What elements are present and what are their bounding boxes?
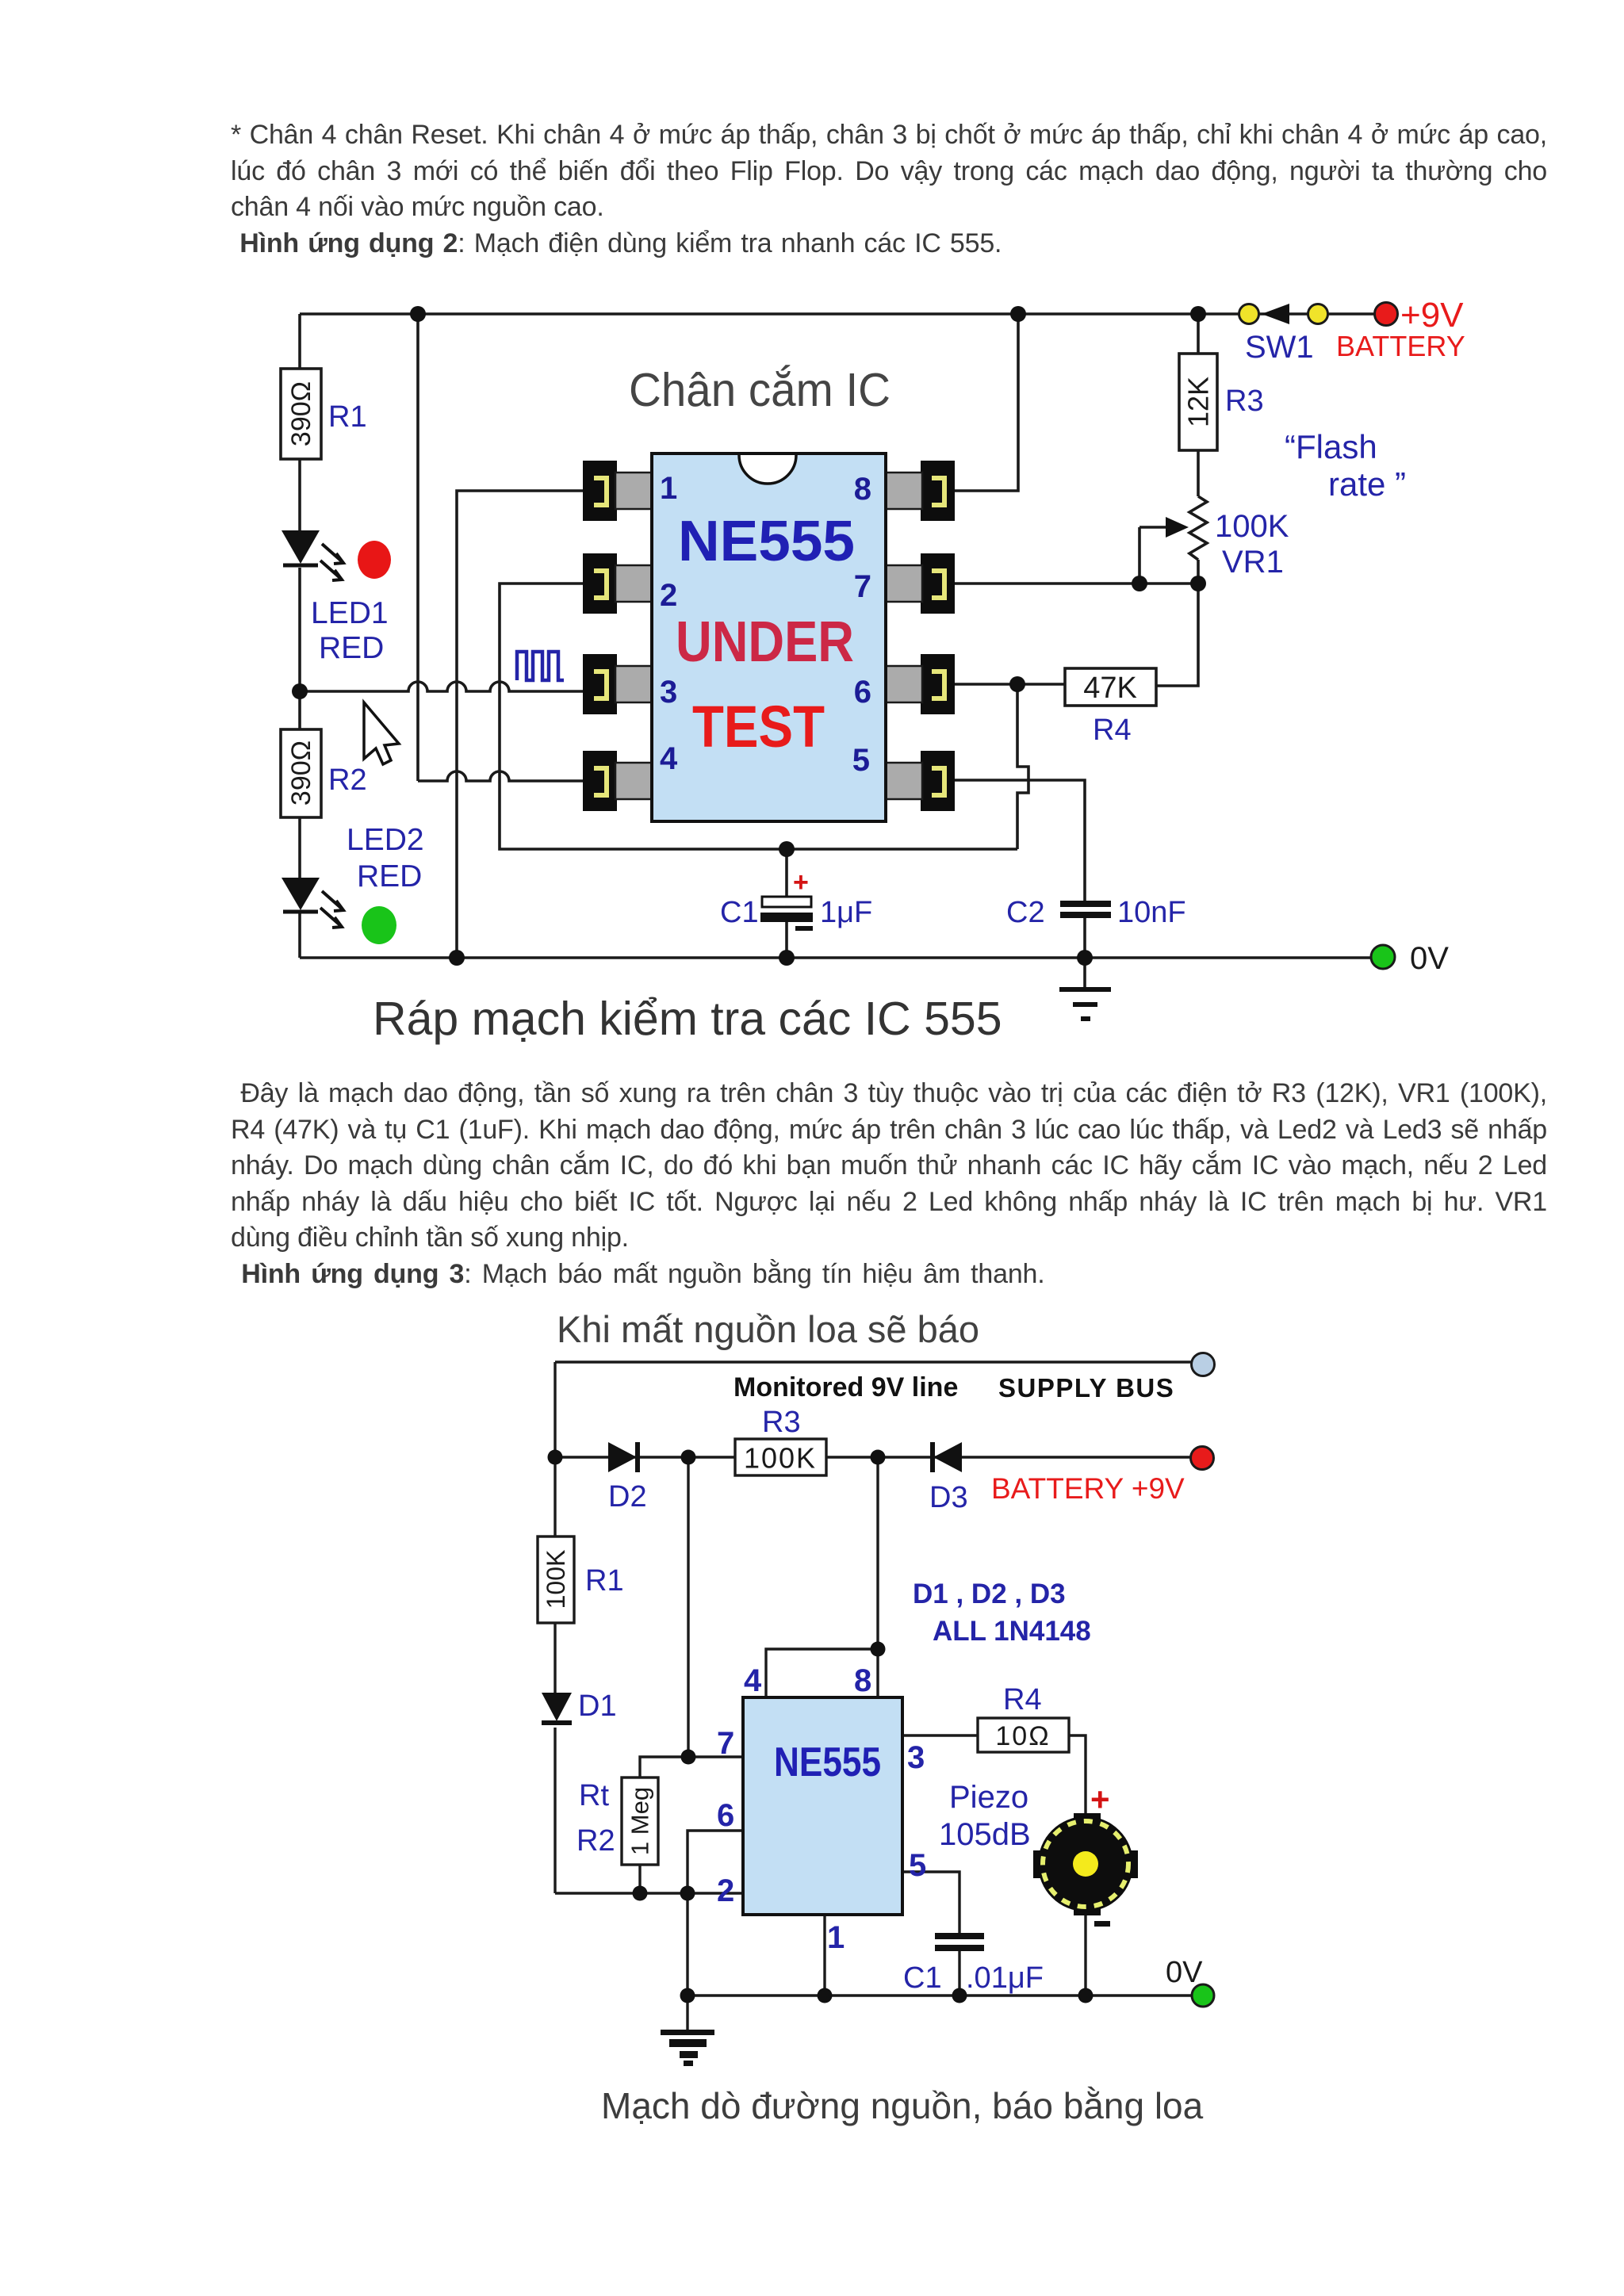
IC pin 8 lead: [885, 473, 922, 509]
svg-text:7: 7: [854, 569, 871, 604]
svg-text:Monitored 9V line: Monitored 9V line: [733, 1372, 958, 1402]
node A LED1/R2/pin3: [292, 683, 308, 699]
LED1: [282, 530, 343, 580]
IC U2 NE555 body: [743, 1697, 902, 1915]
switch SW1 throw contact: [1308, 304, 1328, 324]
wire LED1 to node A to R2: [298, 568, 301, 729]
wire C1 bottom: [785, 922, 788, 958]
svg-text:Chân cắm IC: Chân cắm IC: [629, 364, 891, 416]
IC pin 5 lead: [885, 763, 922, 799]
junction node dots: [292, 306, 1206, 966]
wire R1 to LED1: [298, 459, 301, 530]
VR1 wiper arrowhead: [1166, 517, 1189, 538]
mouse cursor pointer: [364, 702, 399, 764]
paragraph 1: [231, 117, 1547, 262]
svg-text:D3: D3: [929, 1481, 968, 1514]
svg-text:ALL 1N4148: ALL 1N4148: [933, 1616, 1091, 1647]
svg-text:100K: 100K: [542, 1550, 570, 1609]
ground symbol: [661, 2030, 714, 2066]
svg-text:1 Meg: 1 Meg: [626, 1787, 654, 1855]
svg-text:390Ω: 390Ω: [286, 381, 316, 446]
svg-text:“Flash: “Flash: [1285, 428, 1377, 465]
svg-text:NE555: NE555: [774, 1739, 881, 1785]
svg-text:D1: D1: [578, 1689, 617, 1723]
svg-text:SW1: SW1: [1245, 330, 1314, 365]
IC pin 2 lead: [615, 565, 653, 602]
node +9V/pin4: [410, 306, 426, 322]
IC pin 7 lead: [885, 565, 922, 602]
svg-text:8: 8: [854, 1663, 871, 1698]
svg-text:D2: D2: [608, 1480, 647, 1513]
wire R1 to D1: [553, 1623, 556, 1693]
wire supply bus top line: [555, 1360, 1191, 1363]
wire pin3 line from node A with hops: [300, 682, 584, 691]
diode D1: [542, 1693, 572, 1723]
wire pin2 node to ground rail: [686, 1893, 688, 1996]
IC socket pin 1 contact: [583, 461, 617, 521]
IC socket pin 6 contact: [921, 654, 955, 714]
capacitor C1 1uF electrolytic: [760, 867, 813, 931]
paragraph 2: [231, 1076, 1547, 1292]
wire left rail supply to battery line: [553, 1362, 556, 1457]
svg-text:7: 7: [717, 1726, 734, 1761]
wire LED2 to bottom rail: [298, 913, 301, 958]
wire R2 to LED2: [298, 817, 301, 878]
svg-text:3: 3: [660, 675, 677, 710]
node D2/R3: [681, 1450, 696, 1465]
node pin7/R2: [681, 1750, 696, 1765]
node +9V/pin8: [1010, 306, 1026, 322]
svg-text:6: 6: [854, 675, 871, 710]
svg-text:R3: R3: [762, 1406, 801, 1439]
wire pin6 node down to C1 bus with hop over pin5 line: [1017, 684, 1028, 849]
wire D1 to pin2 line: [553, 1728, 556, 1893]
svg-text:390Ω: 390Ω: [286, 740, 316, 806]
node VR1/pin7/R4: [1190, 576, 1206, 591]
LED2 green indicator dot: [362, 906, 396, 944]
IC pin 6 lead: [885, 666, 922, 702]
resistor R2 1Meg body: [622, 1777, 658, 1865]
svg-text:+9V: +9V: [1400, 296, 1464, 335]
svg-text:4: 4: [660, 741, 678, 776]
IC pin 3 lead: [615, 666, 653, 702]
IC pin 4 lead: [615, 763, 653, 799]
svg-text:2: 2: [660, 578, 677, 613]
wire VR1 to pin7 line: [1197, 560, 1200, 584]
IC socket pin 8 contact: [921, 461, 955, 521]
svg-text:LED1: LED1: [311, 596, 389, 630]
wire pin3 to R4: [902, 1734, 978, 1736]
wire battery node down to pin7: [687, 1457, 689, 1757]
node battery/left rail: [548, 1450, 563, 1465]
svg-text:rate ”: rate ”: [1328, 465, 1406, 503]
svg-text:SUPPLY BUS: SUPPLY BUS: [998, 1373, 1174, 1402]
wire left rail top (R1 to +9V rail): [298, 314, 301, 369]
svg-text:100K: 100K: [744, 1442, 817, 1475]
svg-text:LED2: LED2: [347, 823, 424, 857]
wire pin5 to C2: [955, 780, 1085, 901]
wire pin5 to C1: [902, 1872, 959, 1933]
label minus piezo: [1094, 1921, 1110, 1927]
svg-text:8: 8: [854, 472, 871, 507]
wire +9V rail to R3: [1197, 314, 1200, 354]
IC socket pin 3 contact: [583, 654, 617, 714]
wire C2 to ground rail: [1083, 916, 1086, 958]
wire pin2 down to C1 bus: [500, 584, 1017, 849]
svg-text:R2: R2: [576, 1824, 615, 1858]
svg-text:TEST: TEST: [692, 694, 825, 760]
wire pin4 to +9V rail with hops: [418, 314, 584, 781]
resistor R1 390ohm body: [281, 369, 321, 459]
diode D2: [608, 1442, 638, 1472]
IC pin 1 lead: [615, 473, 653, 509]
resistor R3 100K body: [735, 1439, 826, 1475]
svg-text:BATTERY +9V: BATTERY +9V: [991, 1472, 1185, 1505]
svg-text:NE555: NE555: [678, 510, 855, 573]
svg-text:D1 , D2 , D3: D1 , D2 , D3: [913, 1578, 1066, 1609]
node ground piezo: [1078, 1988, 1094, 2003]
svg-text:BATTERY: BATTERY: [1336, 330, 1465, 362]
svg-text:Piezo: Piezo: [949, 1780, 1028, 1815]
0V terminal: [1192, 1984, 1214, 2007]
wire battery line: [555, 1456, 1190, 1458]
resistor R4 47K body: [1065, 668, 1156, 706]
svg-text:1: 1: [827, 1920, 845, 1955]
svg-text:1: 1: [660, 471, 677, 506]
svg-text:Rt: Rt: [579, 1779, 609, 1812]
wire ground stub under C2: [1083, 958, 1086, 989]
piezo speaker: [1033, 1813, 1138, 1915]
node pin6/pin2: [680, 1886, 695, 1901]
resistor R3 12K body: [1179, 354, 1217, 450]
node pin8 tie: [871, 1642, 886, 1657]
node ground/pin1: [449, 950, 465, 966]
wire pin2 line: [555, 1892, 743, 1894]
resistor R2 390ohm body: [281, 729, 321, 817]
svg-text:1μF: 1μF: [820, 896, 872, 929]
wire R4 right to pin7 node: [1156, 584, 1198, 686]
svg-text:C2: C2: [1006, 896, 1045, 929]
svg-text:0V: 0V: [1166, 1956, 1203, 1989]
node VR1 wiper/pin7: [1132, 576, 1147, 591]
wire pin6 to R4: [955, 683, 1065, 686]
svg-text:10Ω: 10Ω: [995, 1721, 1050, 1751]
svg-text:Ráp mạch kiểm tra các IC 555: Ráp mạch kiểm tra các IC 555: [373, 993, 1002, 1045]
wire bottom 0V rail: [300, 956, 1371, 959]
LED1 red indicator dot: [358, 541, 391, 579]
IC socket pin 4 contact: [583, 751, 617, 811]
resistor R1 100K body: [538, 1536, 574, 1623]
wire C1 to ground rail: [958, 1951, 960, 1996]
potentiometer VR1 zigzag: [1189, 496, 1207, 560]
junction node dots: [548, 1450, 1094, 2003]
wire pin7 line to R2: [640, 1757, 743, 1777]
capacitor C1 .01uF: [935, 1933, 984, 1951]
LED2: [282, 878, 343, 928]
0V terminal: [1371, 945, 1395, 969]
svg-text:105dB: 105dB: [939, 1817, 1031, 1852]
svg-text:100K: 100K: [1215, 509, 1289, 544]
wire pin8 to +9V rail: [955, 314, 1018, 491]
switch SW1 lever arrow: [1262, 304, 1289, 324]
svg-text:R4: R4: [1093, 714, 1132, 747]
svg-text:2: 2: [717, 1873, 734, 1908]
svg-text:R2: R2: [328, 763, 367, 797]
battery terminal red: [1191, 1447, 1214, 1470]
svg-text:10nF: 10nF: [1117, 896, 1186, 929]
wire R4 to piezo: [1069, 1735, 1086, 1817]
svg-text:RED: RED: [319, 631, 384, 665]
IC socket pin 2 contact: [583, 553, 617, 614]
svg-text:VR1: VR1: [1222, 545, 1284, 580]
wire piezo to ground rail: [1084, 1912, 1086, 1996]
wire pin1 to ground rail: [457, 491, 584, 958]
node R3/D3: [871, 1450, 886, 1465]
svg-text:+: +: [793, 867, 809, 897]
wire ground stub: [686, 1996, 688, 2030]
wire VR1 wiper to pin7 line: [1139, 527, 1174, 584]
svg-text:Khi mất nguồn loa sẽ báo: Khi mất nguồn loa sẽ báo: [557, 1308, 979, 1350]
node ground pin1: [818, 1988, 833, 2003]
wire R3 to VR1: [1197, 450, 1200, 496]
svg-text:5: 5: [852, 743, 870, 778]
battery +9V terminal: [1375, 303, 1398, 326]
svg-text:RED: RED: [357, 859, 422, 894]
svg-text:47K: 47K: [1083, 672, 1137, 705]
svg-text:6: 6: [717, 1798, 734, 1833]
resistor R4 10ohm body: [978, 1718, 1069, 1752]
node C1/pin2 bus: [779, 841, 795, 857]
CIRCUIT 1 SVG: [262, 277, 1515, 1070]
wire pin6 line down: [688, 1831, 743, 1893]
wire pin7 to VR1 bottom: [955, 582, 1198, 585]
svg-text:Mạch dò đường nguồn, báo bằng: Mạch dò đường nguồn, báo bằng loa: [601, 2085, 1204, 2126]
wire top +9V rail: [300, 312, 1377, 316]
svg-text:R4: R4: [1003, 1683, 1042, 1716]
svg-text:4: 4: [744, 1663, 762, 1698]
node ground/C1: [779, 950, 795, 966]
node ground C1: [952, 1988, 967, 2003]
node ground/C2: [1077, 950, 1093, 966]
switch SW1 pole contact: [1239, 304, 1259, 324]
svg-text:0V: 0V: [1410, 941, 1449, 976]
pulse waveform symbol at pin3: [517, 652, 564, 680]
capacitor C2 10nF: [1060, 901, 1111, 918]
ground symbol under C2: [1059, 987, 1111, 1021]
svg-text:5: 5: [909, 1848, 926, 1883]
CIRCUIT 2 SVG: [507, 1300, 1300, 2149]
IC socket pin 7 contact: [921, 553, 955, 614]
svg-text:.01μF: .01μF: [966, 1961, 1044, 1995]
wire pin4 pin8 tie: [766, 1457, 878, 1697]
svg-text:R3: R3: [1225, 385, 1264, 418]
node ground left: [680, 1988, 695, 2003]
wire battery node to R1: [553, 1457, 556, 1536]
node R2/pin2: [633, 1886, 648, 1901]
svg-text:C1: C1: [903, 1961, 942, 1995]
supply bus terminal: [1192, 1353, 1215, 1376]
svg-text:R1: R1: [328, 400, 367, 434]
node +9V/R3: [1190, 306, 1206, 322]
node pin6/R4: [1009, 676, 1025, 692]
wire R2 bottom: [638, 1865, 641, 1893]
wire C1 top: [785, 849, 788, 897]
svg-text:C1: C1: [720, 896, 759, 929]
svg-text:R1: R1: [585, 1564, 624, 1598]
wire ground 0V rail: [688, 1994, 1191, 1996]
svg-text:+: +: [1090, 1781, 1110, 1818]
wire pin1 to ground rail: [823, 1915, 825, 1996]
svg-text:12K: 12K: [1182, 377, 1215, 427]
svg-text:3: 3: [907, 1740, 925, 1775]
svg-text:UNDER: UNDER: [676, 610, 854, 674]
IC socket pin 5 contact: [921, 751, 955, 811]
diode D3: [933, 1442, 962, 1472]
op IC U1 NE555 body: [652, 453, 886, 821]
